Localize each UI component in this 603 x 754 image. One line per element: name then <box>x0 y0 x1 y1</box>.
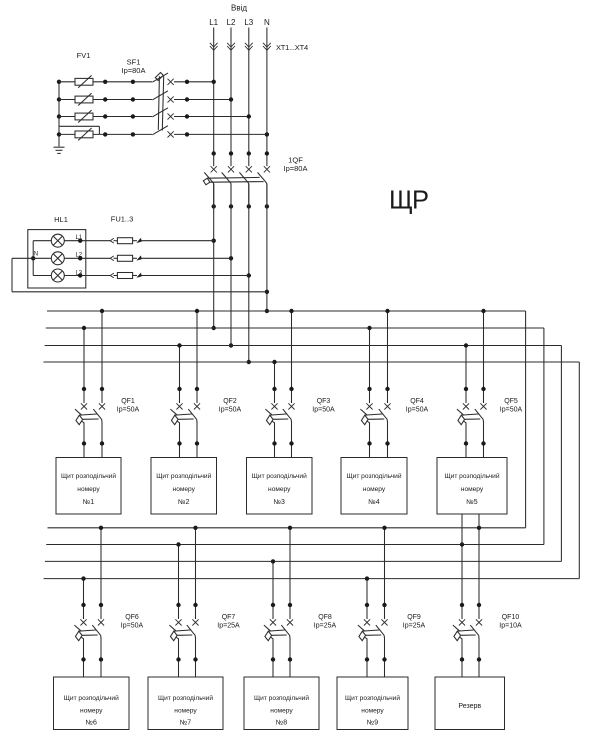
svg-text:Щит розподільчий: Щит розподільчий <box>156 472 211 480</box>
svg-text:HL1: HL1 <box>54 215 68 224</box>
svg-text:№7: №7 <box>180 720 192 727</box>
svg-text:ХТ1...ХТ4: ХТ1...ХТ4 <box>276 43 308 52</box>
svg-text:Ip=25A: Ip=25A <box>217 623 240 630</box>
svg-text:номеру: номеру <box>80 708 103 715</box>
svg-text:номеру: номеру <box>77 486 100 493</box>
svg-text:Ip=25A: Ip=25A <box>403 623 426 630</box>
svg-text:QF2: QF2 <box>223 398 237 405</box>
svg-text:№4: №4 <box>368 499 380 506</box>
svg-text:L1: L1 <box>75 235 82 241</box>
svg-text:QF7: QF7 <box>222 614 236 621</box>
svg-text:N: N <box>34 252 38 258</box>
svg-text:Ip=80A: Ip=80A <box>122 66 146 75</box>
svg-text:номеру: номеру <box>173 486 196 493</box>
svg-text:№5: №5 <box>466 499 478 506</box>
svg-text:номеру: номеру <box>363 486 386 493</box>
svg-text:FU1..3: FU1..3 <box>111 215 134 224</box>
svg-text:QF8: QF8 <box>318 614 332 621</box>
svg-text:FV1: FV1 <box>77 51 91 60</box>
svg-text:QF5: QF5 <box>504 398 518 405</box>
svg-text:Ip=50A: Ip=50A <box>312 407 335 414</box>
svg-text:номеру: номеру <box>268 486 291 493</box>
svg-text:L3: L3 <box>75 270 82 276</box>
svg-text:L2: L2 <box>75 253 82 259</box>
svg-text:QF9: QF9 <box>407 614 421 621</box>
svg-text:Резерв: Резерв <box>458 703 481 710</box>
svg-text:№6: №6 <box>86 720 98 727</box>
svg-text:№8: №8 <box>276 720 288 727</box>
svg-text:№9: №9 <box>367 720 379 727</box>
svg-text:номеру: номеру <box>361 708 384 715</box>
svg-text:L1: L1 <box>209 18 218 27</box>
svg-text:Ввід: Ввід <box>231 4 247 13</box>
svg-text:QF10: QF10 <box>502 614 520 621</box>
svg-text:Ip=25A: Ip=25A <box>314 623 337 630</box>
svg-text:Ip=50A: Ip=50A <box>121 623 144 630</box>
svg-text:Ip=50A: Ip=50A <box>219 407 242 414</box>
svg-text:Ip=10A: Ip=10A <box>499 623 522 630</box>
svg-text:Щит розподільчий: Щит розподільчий <box>64 694 119 702</box>
svg-text:QF4: QF4 <box>410 398 424 405</box>
svg-text:Щит розподільчий: Щит розподільчий <box>61 472 116 480</box>
svg-text:L3: L3 <box>244 18 253 27</box>
svg-text:ЩР: ЩР <box>389 187 428 215</box>
svg-text:QF3: QF3 <box>317 398 331 405</box>
svg-text:1QF: 1QF <box>288 155 303 164</box>
svg-text:Ip=50A: Ip=50A <box>117 407 140 414</box>
svg-text:QF6: QF6 <box>125 614 139 621</box>
svg-text:Щит розподільчий: Щит розподільчий <box>158 694 213 702</box>
svg-text:номеру: номеру <box>270 708 293 715</box>
svg-text:Щит розподільчий: Щит розподільчий <box>444 472 499 480</box>
svg-text:Щит розподільчий: Щит розподільчий <box>254 694 309 702</box>
svg-text:№2: №2 <box>178 499 190 506</box>
svg-text:Щит розподільчий: Щит розподільчий <box>252 472 307 480</box>
svg-text:Щит розподільчий: Щит розподільчий <box>346 472 401 480</box>
svg-text:№1: №1 <box>83 499 95 506</box>
svg-text:Ip=80A: Ip=80A <box>284 164 308 173</box>
svg-text:номеру: номеру <box>461 486 484 493</box>
svg-text:номеру: номеру <box>174 708 197 715</box>
svg-text:№3: №3 <box>274 499 286 506</box>
svg-text:Щит розподільчий: Щит розподільчий <box>345 694 400 702</box>
svg-text:Ip=50A: Ip=50A <box>500 407 523 414</box>
svg-text:Ip=50A: Ip=50A <box>406 407 429 414</box>
svg-text:QF1: QF1 <box>121 398 135 405</box>
svg-text:N: N <box>264 18 270 27</box>
svg-text:L2: L2 <box>227 18 236 27</box>
